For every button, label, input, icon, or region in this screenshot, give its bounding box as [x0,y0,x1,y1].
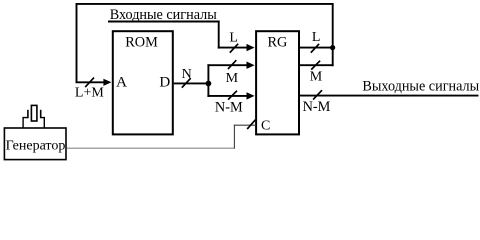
crystal left plate [27,110,29,118]
svg-text:ROM: ROM [125,35,158,51]
svg-text:M: M [226,71,239,86]
crystal left lead [23,118,28,128]
wire L input to RG [218,44,255,51]
bus slash M output [311,61,320,70]
crystal right lead [41,118,45,128]
label L+M [75,85,104,100]
register RG box [256,31,299,134]
wire input signals vertical [218,21,220,49]
wire clock horizontal from generator [67,147,235,149]
svg-text:D: D [159,75,170,91]
junction node L feedback [330,45,335,50]
svg-text:Выходные сигналы: Выходные сигналы [362,79,479,95]
label M input [226,71,239,86]
pin A label [116,75,127,91]
wire M input to RG [207,62,254,69]
wire L output of RG [299,47,334,49]
crystal resonator body [31,105,37,121]
label L output [312,30,321,45]
bus slash N-M input [228,91,237,100]
svg-text:L: L [229,31,238,46]
bus slash L+M on A wire [85,78,94,88]
wire D output [174,82,209,84]
svg-text:Генератор: Генератор [6,139,66,154]
wire M output of RG [299,64,334,66]
node Входные сигналы label [110,7,218,23]
wire N-M output of RG [299,95,479,97]
svg-text:A: A [116,75,127,91]
wire right feedback vertical [332,3,334,66]
label M output [310,70,323,85]
svg-text:M: M [310,70,323,85]
svg-text:N-M: N-M [303,99,331,115]
node Выходные сигналы label [362,79,479,95]
wire N-M input to RG [207,92,254,99]
svg-text:C: C [261,119,270,134]
svg-text:RG: RG [267,35,287,51]
pin C label [261,119,270,134]
label N-M input [215,100,243,116]
wire top feedback horizontal [76,3,334,5]
bus slash L output [311,44,319,53]
generator G1 box [4,128,66,160]
label L input [229,31,238,46]
label RG [267,35,287,51]
pin D label [159,75,170,91]
wire clock into C pin [234,124,256,126]
junction node D split [206,81,212,87]
wire A input [76,79,112,86]
wire D split vertical [207,64,209,97]
svg-text:L: L [312,30,321,45]
label Генератор [6,139,66,154]
bus slash N on D wire [182,78,191,88]
wire clock vertical [233,125,235,149]
bus slash N-M output [313,90,322,99]
wire left feedback vertical [76,3,78,83]
svg-text:N: N [182,67,192,82]
wire input signals horizontal (underline) [108,21,220,23]
ROM U1 box [113,31,173,134]
bus slash L input [230,44,238,53]
label N-M output [303,99,331,115]
label ROM [125,35,158,51]
crystal right plate [40,110,42,118]
svg-text:L+M: L+M [75,85,104,100]
bus slash C input [247,120,255,129]
label N [182,67,192,82]
svg-text:N-M: N-M [215,100,243,116]
bus slash M input [228,60,236,69]
